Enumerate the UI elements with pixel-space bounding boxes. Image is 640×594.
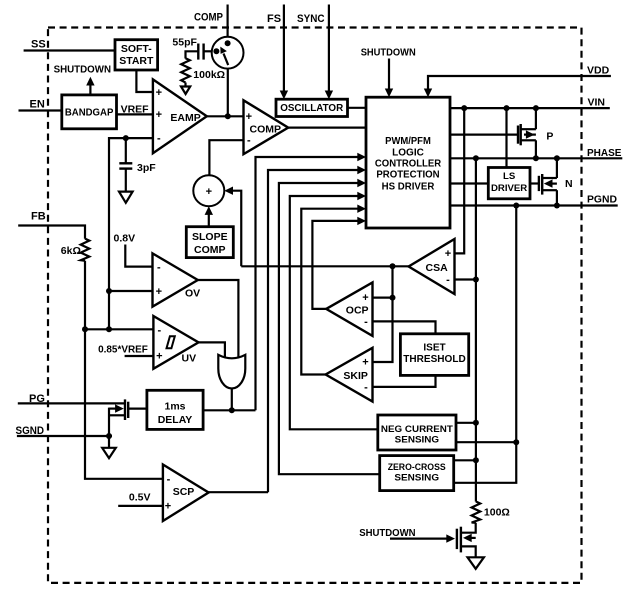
- wire PHASE down to CSA - and sensing: [475, 158, 477, 501]
- wire OCP + stub: [373, 297, 393, 299]
- wire COMP output to PWM box: [288, 126, 366, 128]
- capacitor 55pF: [172, 37, 214, 60]
- svg-text:PROTECTION: PROTECTION: [376, 169, 439, 181]
- OSCILLATOR block: [276, 99, 348, 116]
- wire CSA output row to summer: [241, 265, 408, 267]
- wire LS DRIVER to N gate: [530, 182, 539, 184]
- wire 0.5V stub to SCP +: [118, 505, 163, 507]
- drain arm to 100 ohm: [461, 523, 476, 533]
- NEG CURRENT SENSING block: [378, 415, 456, 450]
- svg-text:100Ω: 100Ω: [484, 507, 510, 519]
- svg-text:SYNC: SYNC: [297, 13, 325, 25]
- svg-text:PHASE: PHASE: [587, 147, 622, 159]
- wire PGND row: [450, 204, 618, 206]
- 1ms DELAY block: [147, 390, 203, 429]
- wire arrow up from BANDGAP: [89, 84, 91, 95]
- wire OR output down to delay row: [231, 389, 233, 411]
- svg-text:UV: UV: [182, 353, 197, 365]
- svg-text:SENSING: SENSING: [395, 434, 439, 445]
- svg-text:FS: FS: [267, 13, 281, 25]
- node SGND junction: [106, 433, 112, 439]
- svg-text:+: +: [246, 111, 252, 123]
- wire COMP - input to summer: [209, 140, 243, 175]
- ground (bottom right): [468, 557, 484, 569]
- comparator OV: [153, 253, 201, 306]
- wire fan-in 3: ZERO-CROSS to PWM box (arrow): [279, 179, 380, 474]
- svg-text:VIN: VIN: [588, 96, 606, 108]
- svg-text:-: -: [364, 381, 368, 393]
- svg-text:COMP: COMP: [194, 12, 223, 24]
- SLOPE COMP block: [186, 227, 233, 258]
- ground (below 3pF): [119, 192, 133, 203]
- svg-text:SOFT-: SOFT-: [121, 43, 152, 55]
- wire EN to BANDGAP: [19, 109, 62, 111]
- BANDGAP block U2: [62, 95, 117, 129]
- node FB sense junction at UV-: [106, 326, 112, 332]
- svg-text:THRESHOLD: THRESHOLD: [403, 354, 465, 365]
- transistor Q1 (shutdown NMOS): [457, 523, 476, 558]
- resistor 100 (phase sense): [472, 502, 510, 523]
- svg-text:PGND: PGND: [587, 194, 617, 206]
- gate wire to delay block: [128, 408, 147, 410]
- pin PHASE (right): [450, 147, 622, 159]
- comparator COMP: [244, 100, 289, 154]
- wire ZERO top row to PHASE line: [454, 459, 476, 461]
- svg-text:P: P: [546, 131, 553, 143]
- node CSA output junction: [390, 263, 396, 269]
- pin SGND: [16, 425, 113, 437]
- node COMP pin terminal: [225, 40, 231, 46]
- svg-text:LS: LS: [503, 171, 516, 182]
- wire cap left plate to resistor: [186, 51, 199, 58]
- comparator CSA: [409, 239, 455, 294]
- svg-text:0.85*VREF: 0.85*VREF: [98, 343, 148, 355]
- resistor 100k: [181, 58, 225, 82]
- wire SHUTDOWN to Q1 gate (arrow): [390, 537, 447, 539]
- svg-text:+: +: [362, 357, 368, 369]
- op-amp EAMP: [153, 79, 207, 153]
- svg-text:-: -: [247, 135, 251, 147]
- wire fan-in 2: SCP to PWM box (arrow): [268, 166, 366, 492]
- wire NEG top row to PHASE line: [456, 422, 476, 424]
- wire SCP output: [209, 491, 268, 493]
- wire VIN down to LS DRIVER top: [505, 108, 507, 167]
- wire SYNC down to oscillator with arrow: [328, 5, 330, 92]
- pin FS (top): [267, 5, 288, 100]
- switch lever with arrow: [224, 54, 229, 66]
- wire UV - row: [85, 328, 153, 330]
- svg-text:SCP: SCP: [173, 486, 195, 498]
- wire VIN from PWM box to pin: [450, 107, 610, 109]
- svg-text:SS: SS: [31, 39, 46, 51]
- hysteresis symbol: [167, 336, 175, 348]
- wire N source to PGND: [556, 190, 558, 205]
- wire 0.8V to OV -: [125, 245, 152, 267]
- wire switch bottom to EAMP output: [227, 69, 229, 117]
- wire OCP - to ISET THRESHOLD: [373, 321, 436, 333]
- svg-text:+: +: [156, 286, 162, 298]
- wire SGND: [17, 435, 112, 437]
- wire VREF to EAMP +2: [117, 113, 153, 115]
- comparator SCP: [163, 465, 209, 522]
- wire OV output to OR gate: [198, 280, 239, 357]
- SOFT-START block U1: [115, 40, 158, 70]
- svg-text:OV: OV: [185, 287, 200, 299]
- svg-text:SHUTDOWN: SHUTDOWN: [54, 63, 111, 75]
- wire CSA output down to OCP+/SKIP+: [373, 266, 393, 362]
- svg-text:BANDGAP: BANDGAP: [65, 107, 114, 119]
- wire FB to 6k resistor: [18, 226, 85, 239]
- switch S1 (COMP pin switch): [212, 37, 244, 69]
- svg-text:EN: EN: [30, 98, 45, 110]
- pin SYNC (top): [297, 5, 333, 100]
- wire EAMP output to COMP +: [207, 115, 244, 117]
- LS DRIVER block: [488, 168, 530, 199]
- svg-text:-: -: [157, 133, 161, 145]
- svg-text:CONTROLLER: CONTROLLER: [375, 157, 442, 169]
- transistor N (low side NMOS): [539, 158, 573, 205]
- transistor P (high side PMOS): [518, 108, 553, 158]
- wire 1ms DELAY output row: [203, 409, 255, 411]
- svg-text:SENSING: SENSING: [394, 472, 439, 483]
- svg-text:SKIP: SKIP: [343, 370, 368, 382]
- svg-text:PWM/PFM: PWM/PFM: [385, 135, 431, 147]
- svg-text:+: +: [156, 87, 162, 99]
- pin PG: [18, 393, 125, 405]
- svg-text:100kΩ: 100kΩ: [193, 69, 225, 81]
- wire SKIP - to ISET THRESHOLD: [373, 375, 436, 387]
- wire fan-in 6: OCP to PWM box (arrow): [312, 217, 366, 309]
- wire SLOPE COMP up into summer (arrow): [205, 206, 213, 227]
- svg-text:+: +: [156, 109, 162, 121]
- svg-text:SHUTDOWN: SHUTDOWN: [359, 527, 415, 539]
- node cap terminal: [213, 48, 219, 54]
- node EAMP output junction: [225, 113, 231, 119]
- wire 0.85*VREF stub to UV +: [125, 355, 154, 357]
- svg-text:-: -: [157, 261, 161, 273]
- wire PG to open-drain MOSFET: [18, 402, 125, 404]
- svg-text:OSCILLATOR: OSCILLATOR: [280, 103, 344, 114]
- svg-text:+: +: [165, 501, 171, 513]
- svg-text:+: +: [445, 248, 451, 260]
- svg-text:HS DRIVER: HS DRIVER: [382, 180, 435, 192]
- gate OR (OV/UV): [218, 355, 245, 389]
- svg-text:DELAY: DELAY: [158, 414, 193, 426]
- wire P source to VIN: [535, 108, 537, 129]
- comparator SKIP: [326, 348, 373, 402]
- node CSA - junction on PHASE line: [473, 277, 479, 283]
- wire cap right plate to switch dot: [204, 50, 214, 52]
- wire fan-in 5: SKIP to PWM box (arrow): [301, 205, 366, 375]
- source arm: [109, 414, 125, 416]
- wire SHUTDOWN down into PWM box with arrow: [388, 59, 390, 90]
- wire UV output to OR gate: [199, 342, 225, 357]
- node OCP + junction: [390, 295, 396, 301]
- wire fan-in 4: NEG CURRENT to PWM box (arrow): [290, 192, 378, 429]
- dashed chip boundary: [48, 28, 582, 583]
- wire VDD into PWM box top with arrow: [428, 76, 611, 90]
- pin COMP (top): [194, 5, 228, 44]
- svg-text:N: N: [565, 178, 573, 190]
- svg-text:VDD: VDD: [587, 65, 610, 77]
- svg-text:SHUTDOWN: SHUTDOWN: [361, 47, 416, 59]
- body arrow arm: [109, 408, 122, 410]
- wire COMP pin down into switch circle: [227, 5, 229, 44]
- pin EN: [19, 98, 62, 110]
- wire oscillator to PWM box: [348, 107, 367, 109]
- ground (below 100k): [181, 83, 190, 95]
- ground (below SGND): [102, 436, 116, 458]
- svg-text:SLOPE: SLOPE: [192, 231, 228, 243]
- pin SS: [24, 39, 115, 51]
- svg-text:COMP: COMP: [194, 244, 226, 256]
- wire PWM box to P gate: [450, 134, 517, 136]
- wire FS down to oscillator with arrow: [283, 5, 285, 92]
- wire NEG bottom row to PGND line: [456, 441, 516, 443]
- node VIN junctions: [461, 105, 467, 111]
- svg-text:OCP: OCP: [346, 304, 369, 316]
- svg-text:-: -: [167, 474, 171, 486]
- label SHUTDOWN (top): [361, 47, 416, 98]
- svg-text:55pF: 55pF: [172, 37, 197, 49]
- svg-text:+: +: [206, 186, 212, 198]
- wire PHASE row: [450, 157, 622, 159]
- summer (slope comp adder): [193, 175, 224, 206]
- wire PWM box to LS DRIVER: [450, 182, 488, 184]
- pin FB: [18, 210, 85, 238]
- wire N drain to PHASE: [556, 158, 558, 178]
- svg-text:1ms: 1ms: [164, 401, 185, 413]
- svg-text:DRIVER: DRIVER: [491, 183, 527, 194]
- wire CSA - stub: [455, 278, 476, 280]
- svg-text:+: +: [156, 351, 162, 363]
- svg-text:3pF: 3pF: [137, 162, 156, 174]
- wire SOFT-START to EAMP +1: [136, 70, 153, 92]
- svg-text:FB: FB: [31, 210, 46, 222]
- svg-text:ISET: ISET: [423, 343, 445, 354]
- body arrow arm: [470, 537, 476, 539]
- pin VIN (right): [450, 96, 610, 108]
- wire FB sense down to SCP -: [85, 329, 163, 479]
- node PGND junctions: [513, 203, 519, 209]
- node PHASE junctions: [473, 155, 479, 161]
- svg-text:NEG CURRENT: NEG CURRENT: [381, 424, 453, 435]
- node OR/delay junction: [229, 407, 235, 413]
- wire P drain to PHASE: [535, 140, 537, 158]
- svg-text:-: -: [157, 324, 161, 336]
- svg-text:CSA: CSA: [426, 262, 449, 274]
- pin PGND (right): [450, 194, 618, 206]
- wire SS to SOFT-START: [24, 49, 115, 51]
- comparator UV: [153, 316, 198, 369]
- svg-text:-: -: [446, 274, 450, 286]
- wire EAMP - input / FB sense line: [109, 138, 153, 329]
- node 3pF tap on EAMP - wire: [123, 135, 129, 141]
- svg-text:-: -: [364, 316, 368, 328]
- svg-text:COMP: COMP: [250, 124, 282, 136]
- wire VIN down to CSA +: [455, 108, 465, 253]
- svg-text:+: +: [362, 292, 368, 304]
- pin VDD (right): [424, 65, 611, 98]
- ISET THRESHOLD block: [400, 334, 468, 376]
- svg-text:0.5V: 0.5V: [129, 492, 151, 504]
- capacitor 3pF: [119, 135, 156, 192]
- resistor 6k: [61, 239, 90, 261]
- svg-text:6kΩ: 6kΩ: [61, 245, 81, 257]
- comparator OCP: [326, 283, 372, 336]
- transistor PG (open drain): [109, 399, 147, 436]
- source arm down: [461, 546, 476, 557]
- svg-text:ZERO-CROSS: ZERO-CROSS: [388, 462, 446, 473]
- svg-text:EAMP: EAMP: [170, 112, 200, 124]
- wire fan-in 1: OV/UV/delay line to PWM box (arrow): [256, 153, 367, 411]
- svg-text:START: START: [119, 55, 154, 67]
- node FB/6k junction: [82, 326, 88, 332]
- wire 6k down to UV- row: [84, 261, 86, 330]
- wire OV + row: [109, 290, 153, 292]
- PWM/PFM logic controller block: [366, 97, 450, 228]
- wire CSA output into summer (right input, arrow): [224, 187, 241, 267]
- node FB sense junction at OV+: [106, 288, 112, 294]
- wire PGND down to sensing rows: [454, 206, 517, 483]
- svg-text:0.8V: 0.8V: [114, 233, 136, 245]
- ZERO-CROSS SENSING block: [380, 456, 454, 491]
